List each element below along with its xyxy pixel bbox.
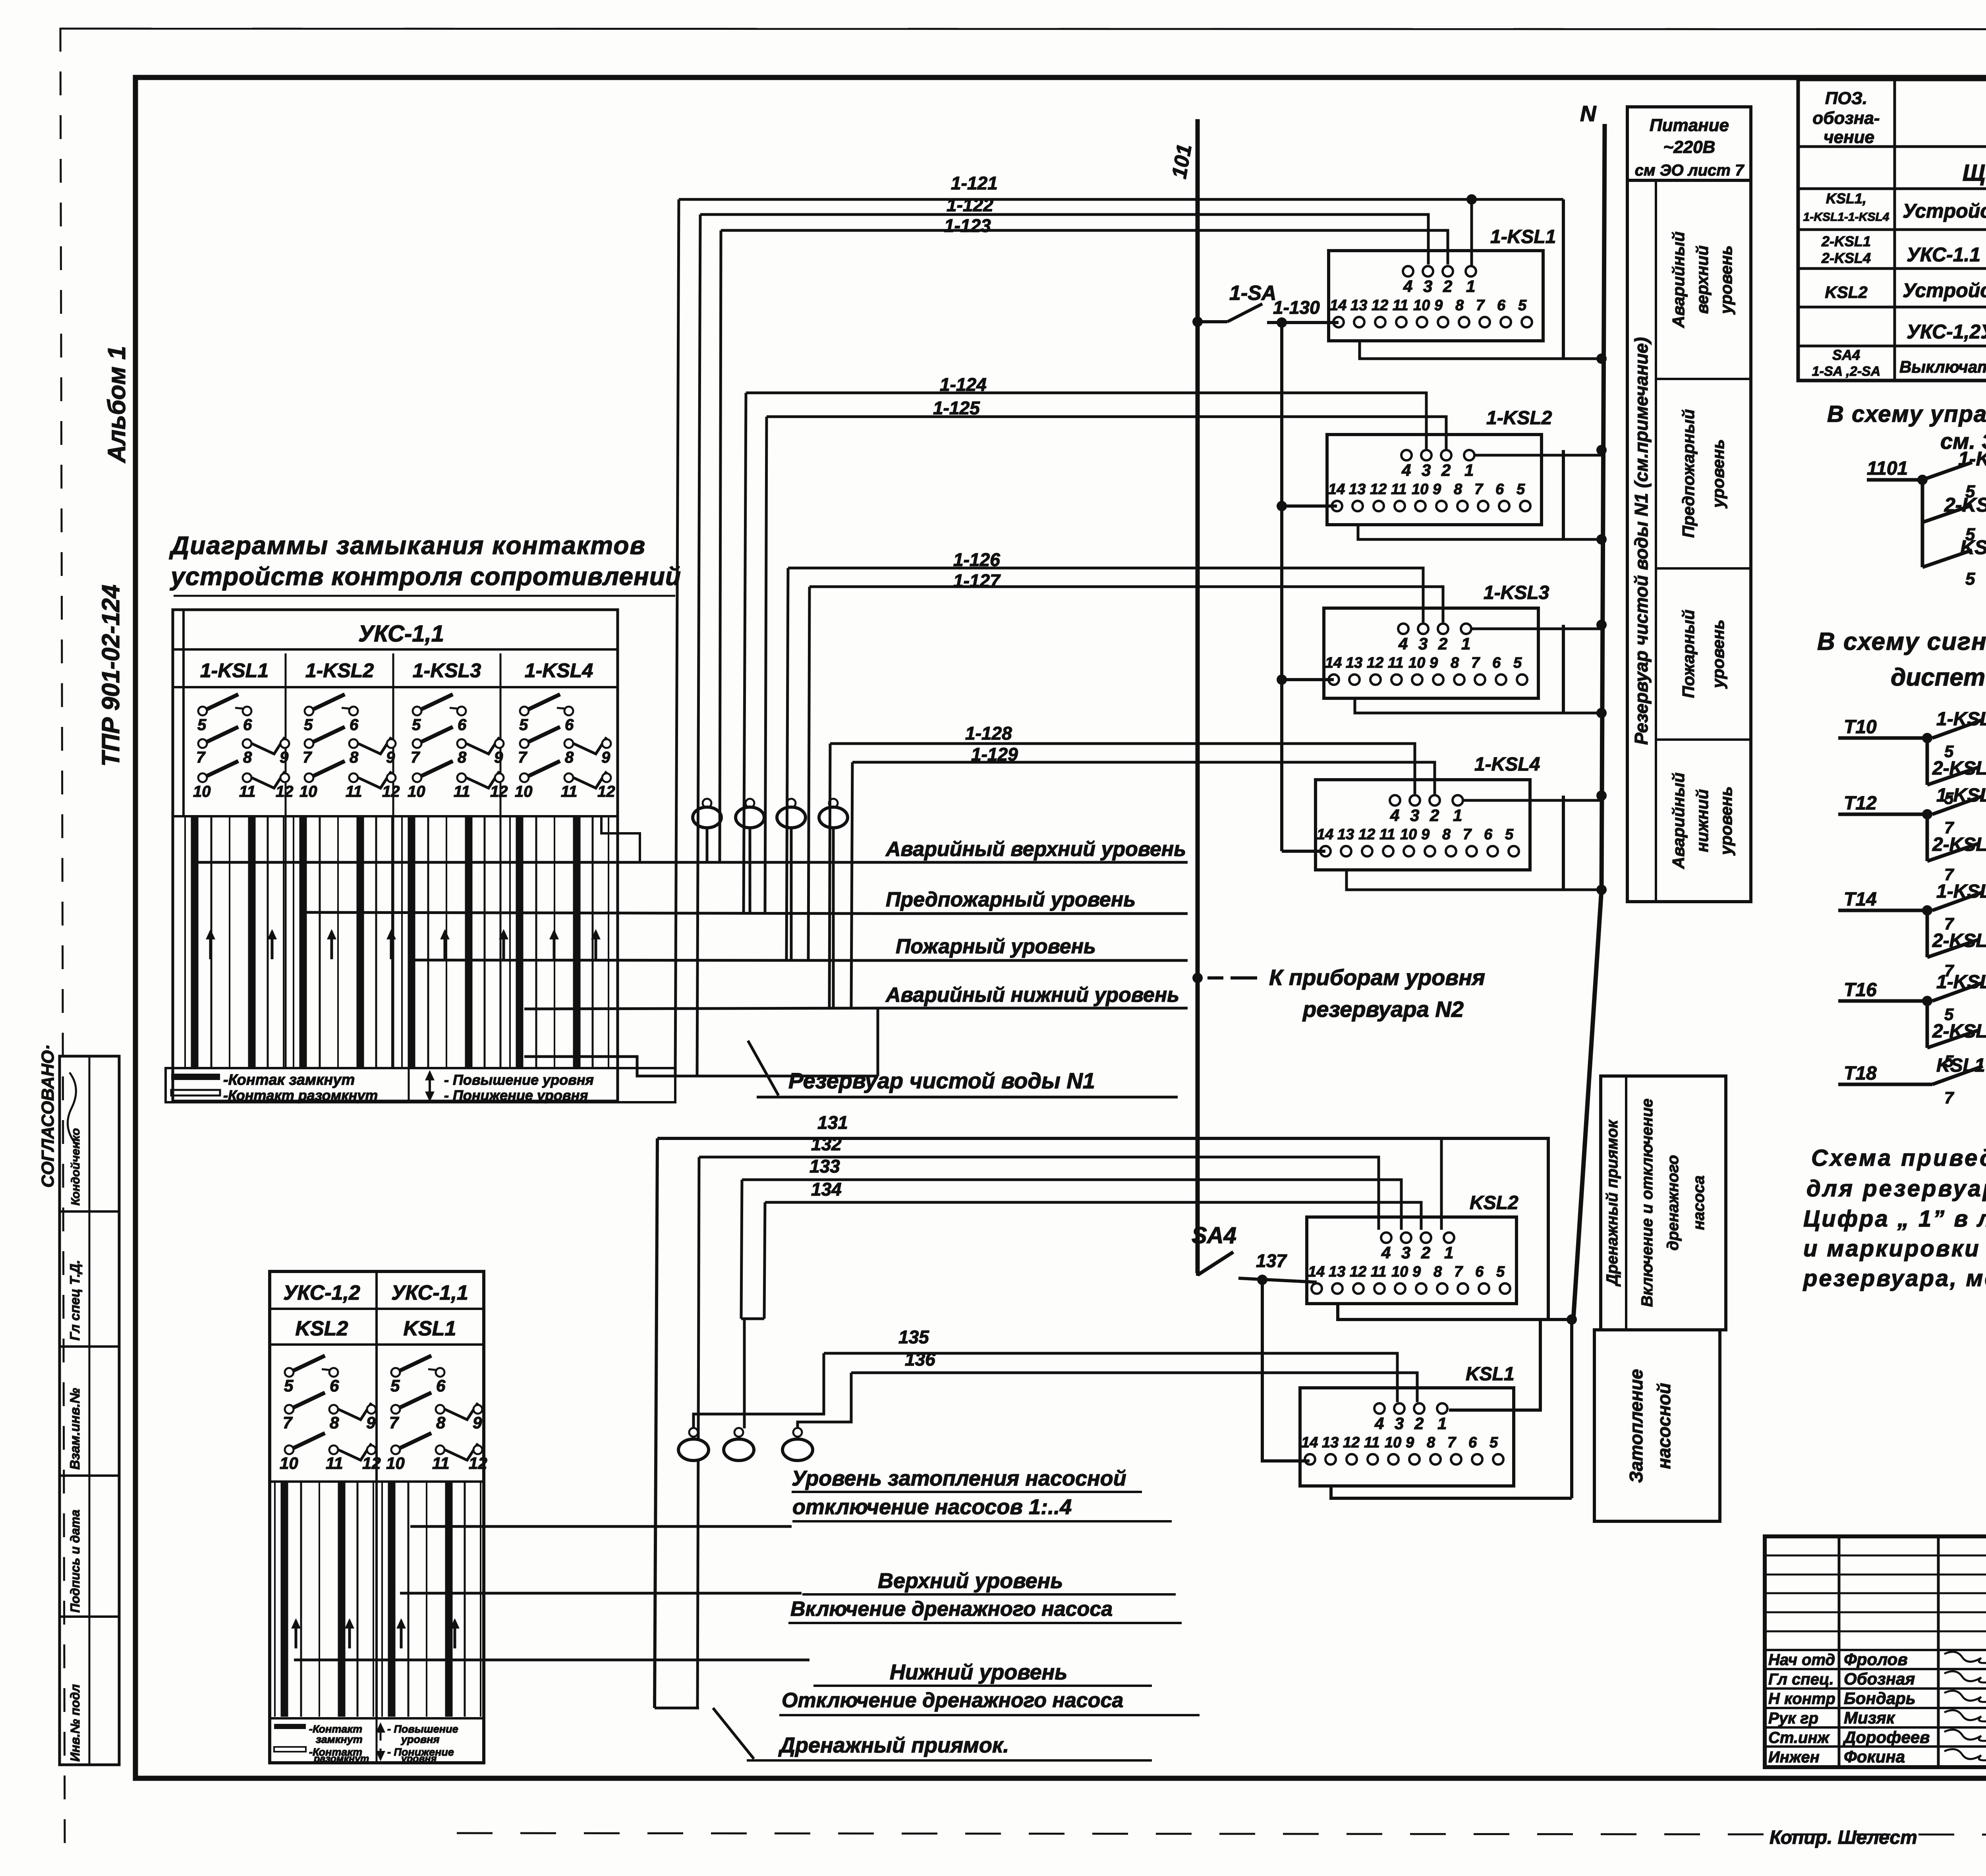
svg-text:12: 12 <box>1370 481 1387 498</box>
svg-text:3: 3 <box>1422 461 1431 479</box>
table УКС-1.1 header <box>173 648 618 651</box>
svg-text:1-KSL1: 1-KSL1 <box>200 659 269 682</box>
legend falling level arrow <box>429 1089 431 1099</box>
label Дренажный приямок <box>655 1707 699 1710</box>
svg-text:насоса: насоса <box>1690 1175 1708 1230</box>
svg-text:отключение насосов 1:..4: отключение насосов 1:..4 <box>792 1495 1072 1519</box>
wire 1-KSL4 pin 13 to N <box>1347 870 1602 890</box>
svg-text:6: 6 <box>436 1376 446 1395</box>
svg-text:10: 10 <box>280 1454 298 1472</box>
svg-text:9: 9 <box>473 1413 482 1432</box>
svg-text:УКС-1,1: УКС-1,1 <box>358 621 444 647</box>
svg-text:Дренажный приямок.: Дренажный приямок. <box>778 1733 1009 1757</box>
svg-text:Выключатель ПВ2-10 , исп 1, ОС: Выключатель ПВ2-10 , исп 1, ОСТ16.0 526 … <box>1899 357 1986 376</box>
svg-text:1-126: 1-126 <box>953 549 1000 570</box>
svg-text:12: 12 <box>1367 655 1383 671</box>
bus from 1-SA to lower relays <box>1280 323 1283 851</box>
svg-text:В схему сигнализации: В схему сигнализации <box>1817 628 1986 655</box>
svg-text:8: 8 <box>458 749 467 766</box>
svg-text:Гл спец.: Гл спец. <box>1768 1671 1834 1688</box>
svg-text:1-KSL4: 1-KSL4 <box>1474 754 1540 775</box>
header УКС-1.2 <box>270 1308 484 1310</box>
svg-text:уровень: уровень <box>1709 439 1727 509</box>
wire level output Пожарный <box>413 960 883 960</box>
wire 135 drop to sensors <box>694 1353 824 1428</box>
timing bars KSL2 lower <box>274 1482 276 1717</box>
svg-text:4: 4 <box>1398 634 1408 653</box>
svg-text:Резервуар чистой воды N1 (см.п: Резервуар чистой воды N1 (см.примечание) <box>1631 337 1652 745</box>
svg-text:7: 7 <box>1447 1434 1457 1451</box>
wire 1-130 <box>1267 321 1339 324</box>
wire 1-123 <box>721 230 1448 265</box>
sensor electrodes upper row <box>703 799 711 808</box>
svg-text:7: 7 <box>1476 297 1485 314</box>
relay unit KSL2 <box>1307 1217 1517 1304</box>
svg-text:8: 8 <box>436 1413 446 1432</box>
svg-text:1-KSL3: 1-KSL3 <box>413 659 481 682</box>
svg-text:УКС-1,2УЗ ТУ16-534 038-79: УКС-1,2УЗ ТУ16-534 038-79 <box>1907 321 1986 343</box>
svg-text:Бондарь: Бондарь <box>1844 1689 1916 1708</box>
wire lower level output 1 <box>410 1525 792 1528</box>
parts table outline <box>1798 79 1986 381</box>
svg-text:4: 4 <box>1374 1414 1384 1433</box>
svg-text:1: 1 <box>1437 1414 1447 1433</box>
svg-text:KSL2: KSL2 <box>296 1317 348 1340</box>
svg-text:N: N <box>1580 101 1597 126</box>
svg-text:4: 4 <box>1381 1243 1391 1262</box>
wire 1-121..123 left verticals <box>675 199 679 1076</box>
svg-text:1-KSL4: 1-KSL4 <box>525 659 593 682</box>
svg-text:уровень: уровень <box>1709 620 1727 689</box>
svg-text:9: 9 <box>494 749 503 766</box>
svg-text:6: 6 <box>330 1376 339 1395</box>
svg-text:14: 14 <box>1328 481 1345 498</box>
svg-text:2: 2 <box>1443 277 1452 296</box>
svg-text:1-KSL1: 1-KSL1 <box>1490 226 1556 247</box>
wire 1-KSL4 pin 1 to N <box>1463 799 1602 802</box>
timing bars 1-KSL2 <box>293 817 294 1068</box>
svg-text:2: 2 <box>1438 634 1447 653</box>
svg-text:13: 13 <box>1346 655 1362 671</box>
svg-text:Кондойченко: Кондойченко <box>69 1128 82 1206</box>
bus 101 <box>1196 119 1200 1273</box>
svg-text:5: 5 <box>519 716 528 734</box>
svg-text:5: 5 <box>1965 569 1975 589</box>
svg-text:14: 14 <box>1325 655 1342 671</box>
sensor drop wires upper <box>706 827 709 862</box>
relay unit KSL1 <box>1300 1388 1514 1486</box>
svg-text:Включение дренажного насоса: Включение дренажного насоса <box>790 1598 1113 1621</box>
svg-text:7: 7 <box>1463 826 1472 843</box>
svg-text:Обозная: Обозная <box>1844 1669 1915 1688</box>
svg-text:5: 5 <box>390 1376 400 1395</box>
svg-text:Гл спец Т.Д.: Гл спец Т.Д. <box>68 1260 83 1341</box>
wire lower level output 3 <box>294 1659 809 1662</box>
svg-text:1-125: 1-125 <box>933 398 980 418</box>
svg-text:T16: T16 <box>1844 980 1877 1001</box>
svg-text:Диаграммы замыкания контактов: Диаграммы замыкания контактов <box>169 531 646 560</box>
svg-text:11: 11 <box>239 783 256 800</box>
wire 1-127 <box>809 587 1443 622</box>
svg-text:14: 14 <box>1301 1434 1318 1451</box>
timing bars 1-KSL3 <box>401 817 403 1068</box>
svg-text:нижний: нижний <box>1693 789 1712 852</box>
svg-text:6: 6 <box>565 716 574 734</box>
svg-text:Н контр: Н контр <box>1768 1690 1835 1708</box>
wire 1-125 <box>767 417 1446 449</box>
wire lower level output 2 <box>400 1592 802 1595</box>
svg-text:10: 10 <box>1400 826 1417 843</box>
svg-text:замкнут: замкнут <box>316 1733 363 1745</box>
svg-text:резервуара, меняется на „ 2.”: резервуара, меняется на „ 2.” <box>1802 1265 1986 1291</box>
relay unit 1-KSL4 <box>1316 780 1530 870</box>
svg-text:уровень: уровень <box>1717 245 1735 315</box>
svg-text:Резервуар чистой воды N1: Резервуар чистой воды N1 <box>788 1068 1095 1093</box>
svg-text:11: 11 <box>326 1454 343 1472</box>
sheet bottom dashed rule <box>457 1833 1986 1835</box>
svg-text:KSL2: KSL2 <box>1470 1192 1518 1213</box>
wire to KSL2 lower pin 1 <box>1440 1138 1443 1230</box>
svg-text:УКС-1.1 УЗ ТУ16-534. 038- 79: УКС-1.1 УЗ ТУ16-534. 038- 79 <box>1907 243 1986 266</box>
svg-text:- Повышение уровня: - Повышение уровня <box>444 1072 594 1088</box>
svg-text:10: 10 <box>1412 481 1428 498</box>
wire 1-KSL1 pin 13 to N <box>1360 341 1602 359</box>
svg-text:9: 9 <box>1430 655 1438 671</box>
svg-text:1-128: 1-128 <box>965 723 1012 744</box>
svg-text:8: 8 <box>1442 826 1451 843</box>
svg-text:Дренажный приямок: Дренажный приямок <box>1603 1119 1621 1287</box>
svg-text:2: 2 <box>1430 806 1439 825</box>
svg-text:5: 5 <box>1518 297 1527 314</box>
contact diagram 1-KSL3 <box>413 707 421 715</box>
wire 131 <box>657 1138 1548 1320</box>
svg-text:10: 10 <box>1385 1434 1401 1451</box>
svg-text:7: 7 <box>518 749 527 766</box>
bus N <box>1573 124 1605 1320</box>
svg-text:Щит станций управления: Щит станций управления <box>1963 160 1986 186</box>
svg-text:12: 12 <box>382 783 400 800</box>
wire 1-128 <box>830 744 1415 794</box>
svg-text:10: 10 <box>1408 655 1425 671</box>
svg-text:11: 11 <box>1391 481 1406 498</box>
wire 133 <box>742 1180 1401 1230</box>
wire 1-126 <box>788 568 1423 622</box>
svg-text:5: 5 <box>412 716 421 734</box>
svg-text:для резервуара чистой воды N2: для резервуара чистой воды N2 схема анал… <box>1806 1176 1986 1202</box>
box Затопление насосной <box>1594 1330 1720 1521</box>
svg-text:3: 3 <box>1410 806 1419 825</box>
svg-text:1101: 1101 <box>1867 458 1908 479</box>
wire SA4 to KSL1 lower pin 14 <box>1262 1280 1310 1461</box>
svg-text:6: 6 <box>1497 297 1506 314</box>
svg-text:1: 1 <box>1444 1243 1453 1262</box>
svg-text:7: 7 <box>1471 655 1480 671</box>
svg-text:5: 5 <box>1513 655 1522 671</box>
relay unit 1-KSL1 <box>1329 251 1543 341</box>
svg-text:Устройство контроля сопротивле: Устройство контроля сопротивления <box>1903 279 1986 301</box>
svg-text:KSL1: KSL1 <box>404 1317 456 1340</box>
svg-text:резервуара N2: резервуара N2 <box>1302 997 1464 1022</box>
svg-text:уровня: уровня <box>400 1753 437 1764</box>
svg-text:134: 134 <box>811 1179 842 1200</box>
wire 1-KSL3 pin 13 to N <box>1355 698 1602 713</box>
svg-text:8: 8 <box>330 1413 339 1432</box>
svg-text:10: 10 <box>386 1454 405 1472</box>
svg-text:1-123: 1-123 <box>944 215 991 236</box>
box Резервуар чистой воды N1 labels <box>1627 180 1751 902</box>
svg-text:Альбом 1: Альбом 1 <box>103 346 131 464</box>
note К приборам уровня резервуара N2 <box>1192 973 1203 983</box>
svg-text:7: 7 <box>1454 1264 1463 1280</box>
svg-text:7: 7 <box>196 749 206 766</box>
sheet outer left dashed border <box>60 28 65 1843</box>
svg-text:11: 11 <box>454 783 470 800</box>
svg-text:14: 14 <box>1308 1264 1325 1280</box>
timing bars 1-KSL4 <box>509 817 511 1068</box>
svg-text:Схема приведена для резервуара: Схема приведена для резервуара чистой во… <box>1811 1145 1986 1171</box>
svg-text:9: 9 <box>1421 826 1430 843</box>
wire 132 <box>699 1157 1379 1230</box>
wire 1-KSL2 pin 1 to N <box>1474 454 1602 457</box>
legend rising level arrow <box>429 1072 431 1091</box>
sensor electrodes lower row <box>689 1428 698 1437</box>
svg-text:5: 5 <box>1505 826 1514 843</box>
svg-text:12: 12 <box>276 783 294 800</box>
svg-text:9: 9 <box>366 1413 376 1432</box>
svg-text:УКС-1,1: УКС-1,1 <box>391 1281 468 1304</box>
box Дренажный приямок <box>1601 1076 1726 1330</box>
lower table legend box <box>270 1718 484 1763</box>
svg-text:8: 8 <box>1433 1264 1442 1280</box>
svg-text:12: 12 <box>1343 1434 1360 1451</box>
svg-text:10: 10 <box>299 783 317 800</box>
svg-text:11: 11 <box>1371 1264 1386 1280</box>
svg-text:14: 14 <box>1317 826 1333 843</box>
svg-text:T14: T14 <box>1844 889 1877 910</box>
svg-text:5: 5 <box>1517 481 1525 498</box>
svg-text:1-121: 1-121 <box>951 173 998 193</box>
svg-text:3: 3 <box>1401 1243 1410 1262</box>
svg-text:13: 13 <box>1337 826 1354 843</box>
box Питание 220В <box>1627 107 1751 180</box>
svg-text:разомкнут: разомкнут <box>313 1753 369 1764</box>
svg-text:дренажного: дренажного <box>1664 1155 1682 1251</box>
svg-text:131: 131 <box>817 1112 848 1133</box>
svg-text:8: 8 <box>1454 481 1462 498</box>
svg-text:6: 6 <box>1468 1434 1477 1451</box>
svg-text:12: 12 <box>597 783 615 800</box>
upper table legend box <box>166 1068 675 1102</box>
legend open contact bar <box>171 1090 220 1095</box>
svg-text:Рук гр: Рук гр <box>1768 1710 1818 1727</box>
wire 1-122 <box>700 214 1428 265</box>
wire 1-124..125 left verticals <box>744 393 746 914</box>
svg-text:Предпожарный уровень: Предпожарный уровень <box>886 888 1136 911</box>
svg-text:7: 7 <box>1474 481 1484 498</box>
svg-text:10: 10 <box>193 783 211 800</box>
svg-text:11: 11 <box>1379 826 1395 843</box>
svg-text:13: 13 <box>1350 297 1367 314</box>
svg-text:10: 10 <box>1391 1264 1408 1280</box>
svg-text:14: 14 <box>1330 297 1347 314</box>
legend closed contact bar <box>171 1074 220 1080</box>
svg-text:7: 7 <box>411 749 420 766</box>
collector wire right of relay boxes <box>1562 199 1565 359</box>
label Резервуар чистой воды N1 <box>748 1041 779 1095</box>
svg-text:7: 7 <box>283 1413 293 1432</box>
svg-text:4: 4 <box>1403 277 1412 296</box>
wire 131/132 long left verticals <box>655 1138 657 1708</box>
contact diagram KSL2 lower <box>285 1368 294 1377</box>
svg-text:12: 12 <box>1358 826 1375 843</box>
wire 133/134 verticals to sensor bracket <box>741 1180 742 1319</box>
svg-text:уровень: уровень <box>1717 786 1735 856</box>
table УКС-1.1 outline <box>173 610 618 1101</box>
svg-text:Отключение дренажного насоса: Отключение дренажного насоса <box>782 1689 1123 1712</box>
svg-text:9: 9 <box>1433 481 1441 498</box>
svg-text:4: 4 <box>1390 806 1399 825</box>
wire level output Аварийный верхний <box>193 861 883 864</box>
title block outline <box>1765 1536 1986 1767</box>
svg-text:3: 3 <box>1418 634 1428 653</box>
svg-text:5: 5 <box>284 1376 294 1395</box>
svg-text:Устройство контроля сопротивле: Устройство контроля сопротивления <box>1903 200 1986 222</box>
svg-text:-Контак замкнут: -Контак замкнут <box>223 1072 355 1088</box>
svg-text:4: 4 <box>1401 461 1411 479</box>
svg-text:12: 12 <box>469 1454 487 1472</box>
svg-text:Ст.инж: Ст.инж <box>1768 1729 1830 1747</box>
contact diagram 1-KSL4 <box>520 707 529 715</box>
svg-text:8: 8 <box>1427 1434 1435 1451</box>
svg-text:Подпись и дата: Подпись и дата <box>68 1510 82 1613</box>
svg-text:8: 8 <box>243 749 252 766</box>
svg-text:Инв.№ подл: Инв.№ подл <box>68 1684 82 1762</box>
wire level output Предпожарный <box>304 912 883 914</box>
svg-text:137: 137 <box>1256 1250 1287 1271</box>
svg-text:1-SA: 1-SA <box>1229 282 1276 305</box>
svg-text:9: 9 <box>386 749 395 766</box>
svg-text:3: 3 <box>1423 277 1432 296</box>
wire to 1-KSL3 pin 14 <box>1277 674 1287 685</box>
svg-text:12: 12 <box>1350 1264 1366 1280</box>
svg-text:KSL1,: KSL1, <box>1826 190 1866 207</box>
svg-text:Фокина: Фокина <box>1844 1747 1905 1766</box>
svg-text:устройств контроля сопротивлен: устройств контроля сопротивлений <box>170 562 681 591</box>
svg-text:Пожарный: Пожарный <box>1679 610 1698 698</box>
svg-text:133: 133 <box>809 1156 840 1177</box>
svg-text:13: 13 <box>1322 1434 1339 1451</box>
svg-text:11: 11 <box>1364 1434 1379 1451</box>
svg-text:3: 3 <box>1395 1414 1404 1433</box>
wire 1-126..127 left verticals <box>786 568 788 960</box>
svg-text:В схему управления насосами: В схему управления насосами <box>1827 401 1986 427</box>
wire 1-121 <box>679 198 1563 201</box>
svg-text:13: 13 <box>1329 1264 1345 1280</box>
svg-text:132: 132 <box>811 1134 842 1154</box>
svg-text:5: 5 <box>1496 1264 1505 1280</box>
svg-text:7: 7 <box>389 1413 399 1432</box>
wire KSL1 lower pin 13 to N <box>1331 1486 1572 1498</box>
switch SA4 <box>1196 1273 1199 1276</box>
wire level output Аварийный нижний <box>524 1008 883 1009</box>
svg-text:-Контакт разомкнут: -Контакт разомкнут <box>223 1087 378 1103</box>
wire 134 <box>765 1202 1421 1230</box>
wire 1-124 <box>746 393 1426 449</box>
svg-text:6: 6 <box>243 716 252 734</box>
svg-text:1-KSL3: 1-KSL3 <box>1484 582 1549 603</box>
svg-text:T10: T10 <box>1844 717 1877 738</box>
svg-text:6: 6 <box>1475 1264 1484 1280</box>
wire to 1-KSL4 pin 14 <box>1282 850 1325 853</box>
svg-text:- Понижение уровня: - Понижение уровня <box>444 1087 588 1103</box>
svg-text:ПОЗ.: ПОЗ. <box>1825 89 1867 108</box>
svg-text:Предпожарный: Предпожарный <box>1679 409 1698 538</box>
wire 136 drop to sensor 3 <box>798 1373 851 1428</box>
svg-text:1: 1 <box>1464 461 1474 479</box>
svg-text:8: 8 <box>350 749 359 766</box>
level-change arrows lower table <box>295 1621 298 1648</box>
svg-text:УКС-1,2: УКС-1,2 <box>283 1281 360 1304</box>
junction dots on bus N <box>1596 354 1607 364</box>
timing bars KSL1 lower <box>381 1482 383 1717</box>
svg-text:6: 6 <box>1495 481 1504 498</box>
svg-text:ТПР 901-02-124: ТПР 901-02-124 <box>97 585 125 767</box>
svg-text:насосной: насосной <box>1654 1383 1674 1469</box>
svg-text:1-SA ,2-SA: 1-SA ,2-SA <box>1812 364 1881 379</box>
svg-text:1-124: 1-124 <box>940 374 987 395</box>
wire 137 <box>1238 1278 1317 1282</box>
svg-text:Взам.инв.№: Взам.инв.№ <box>68 1388 83 1470</box>
svg-text:Мизяк: Мизяк <box>1844 1708 1895 1727</box>
svg-text:Фролов: Фролов <box>1844 1650 1908 1669</box>
svg-text:5: 5 <box>304 716 313 734</box>
svg-text:уровня: уровня <box>400 1733 440 1745</box>
relay unit 1-KSL3 <box>1324 608 1538 698</box>
svg-text:11: 11 <box>1393 297 1408 314</box>
svg-text:и маркировки цепей, обозначающ: и маркировки цепей, обозначающая номер <box>1803 1236 1986 1262</box>
svg-text:10: 10 <box>1413 297 1430 314</box>
svg-text:1-122: 1-122 <box>947 195 993 215</box>
svg-text:9: 9 <box>601 749 610 766</box>
svg-text:11: 11 <box>561 783 578 800</box>
wire 136 <box>851 1373 1417 1402</box>
svg-text:верхний: верхний <box>1693 245 1712 314</box>
svg-text:KSL1: KSL1 <box>1466 1364 1515 1385</box>
sheet outer top border line <box>60 29 1986 29</box>
svg-text:Уровень затопления насосной: Уровень затопления насосной <box>792 1466 1126 1490</box>
svg-text:11: 11 <box>1388 655 1403 671</box>
svg-text:12: 12 <box>362 1454 381 1472</box>
svg-text:9: 9 <box>1434 297 1443 314</box>
svg-text:~220В: ~220В <box>1663 137 1716 157</box>
svg-text:11: 11 <box>346 783 362 800</box>
margin stamp column <box>60 1056 119 1765</box>
svg-text:1-129: 1-129 <box>971 744 1018 765</box>
svg-text:9: 9 <box>280 749 289 766</box>
wire collector lowest step <box>524 1057 878 1076</box>
svg-text:Аварийный: Аварийный <box>1669 773 1688 869</box>
svg-text:12: 12 <box>1372 297 1388 314</box>
svg-text:6: 6 <box>1484 826 1493 843</box>
svg-text:2-KSL4: 2-KSL4 <box>1821 250 1871 266</box>
svg-text:Нижний уровень: Нижний уровень <box>890 1660 1067 1684</box>
relay unit 1-KSL2 <box>1327 435 1542 525</box>
svg-text:2-KSL1: 2-KSL1 <box>1821 233 1871 249</box>
contact diagram 1-KSL2 <box>305 707 313 715</box>
svg-text:8: 8 <box>1451 655 1459 671</box>
svg-text:6: 6 <box>1492 655 1501 671</box>
wire 1-KSL2 pin 13 to N <box>1358 525 1602 539</box>
